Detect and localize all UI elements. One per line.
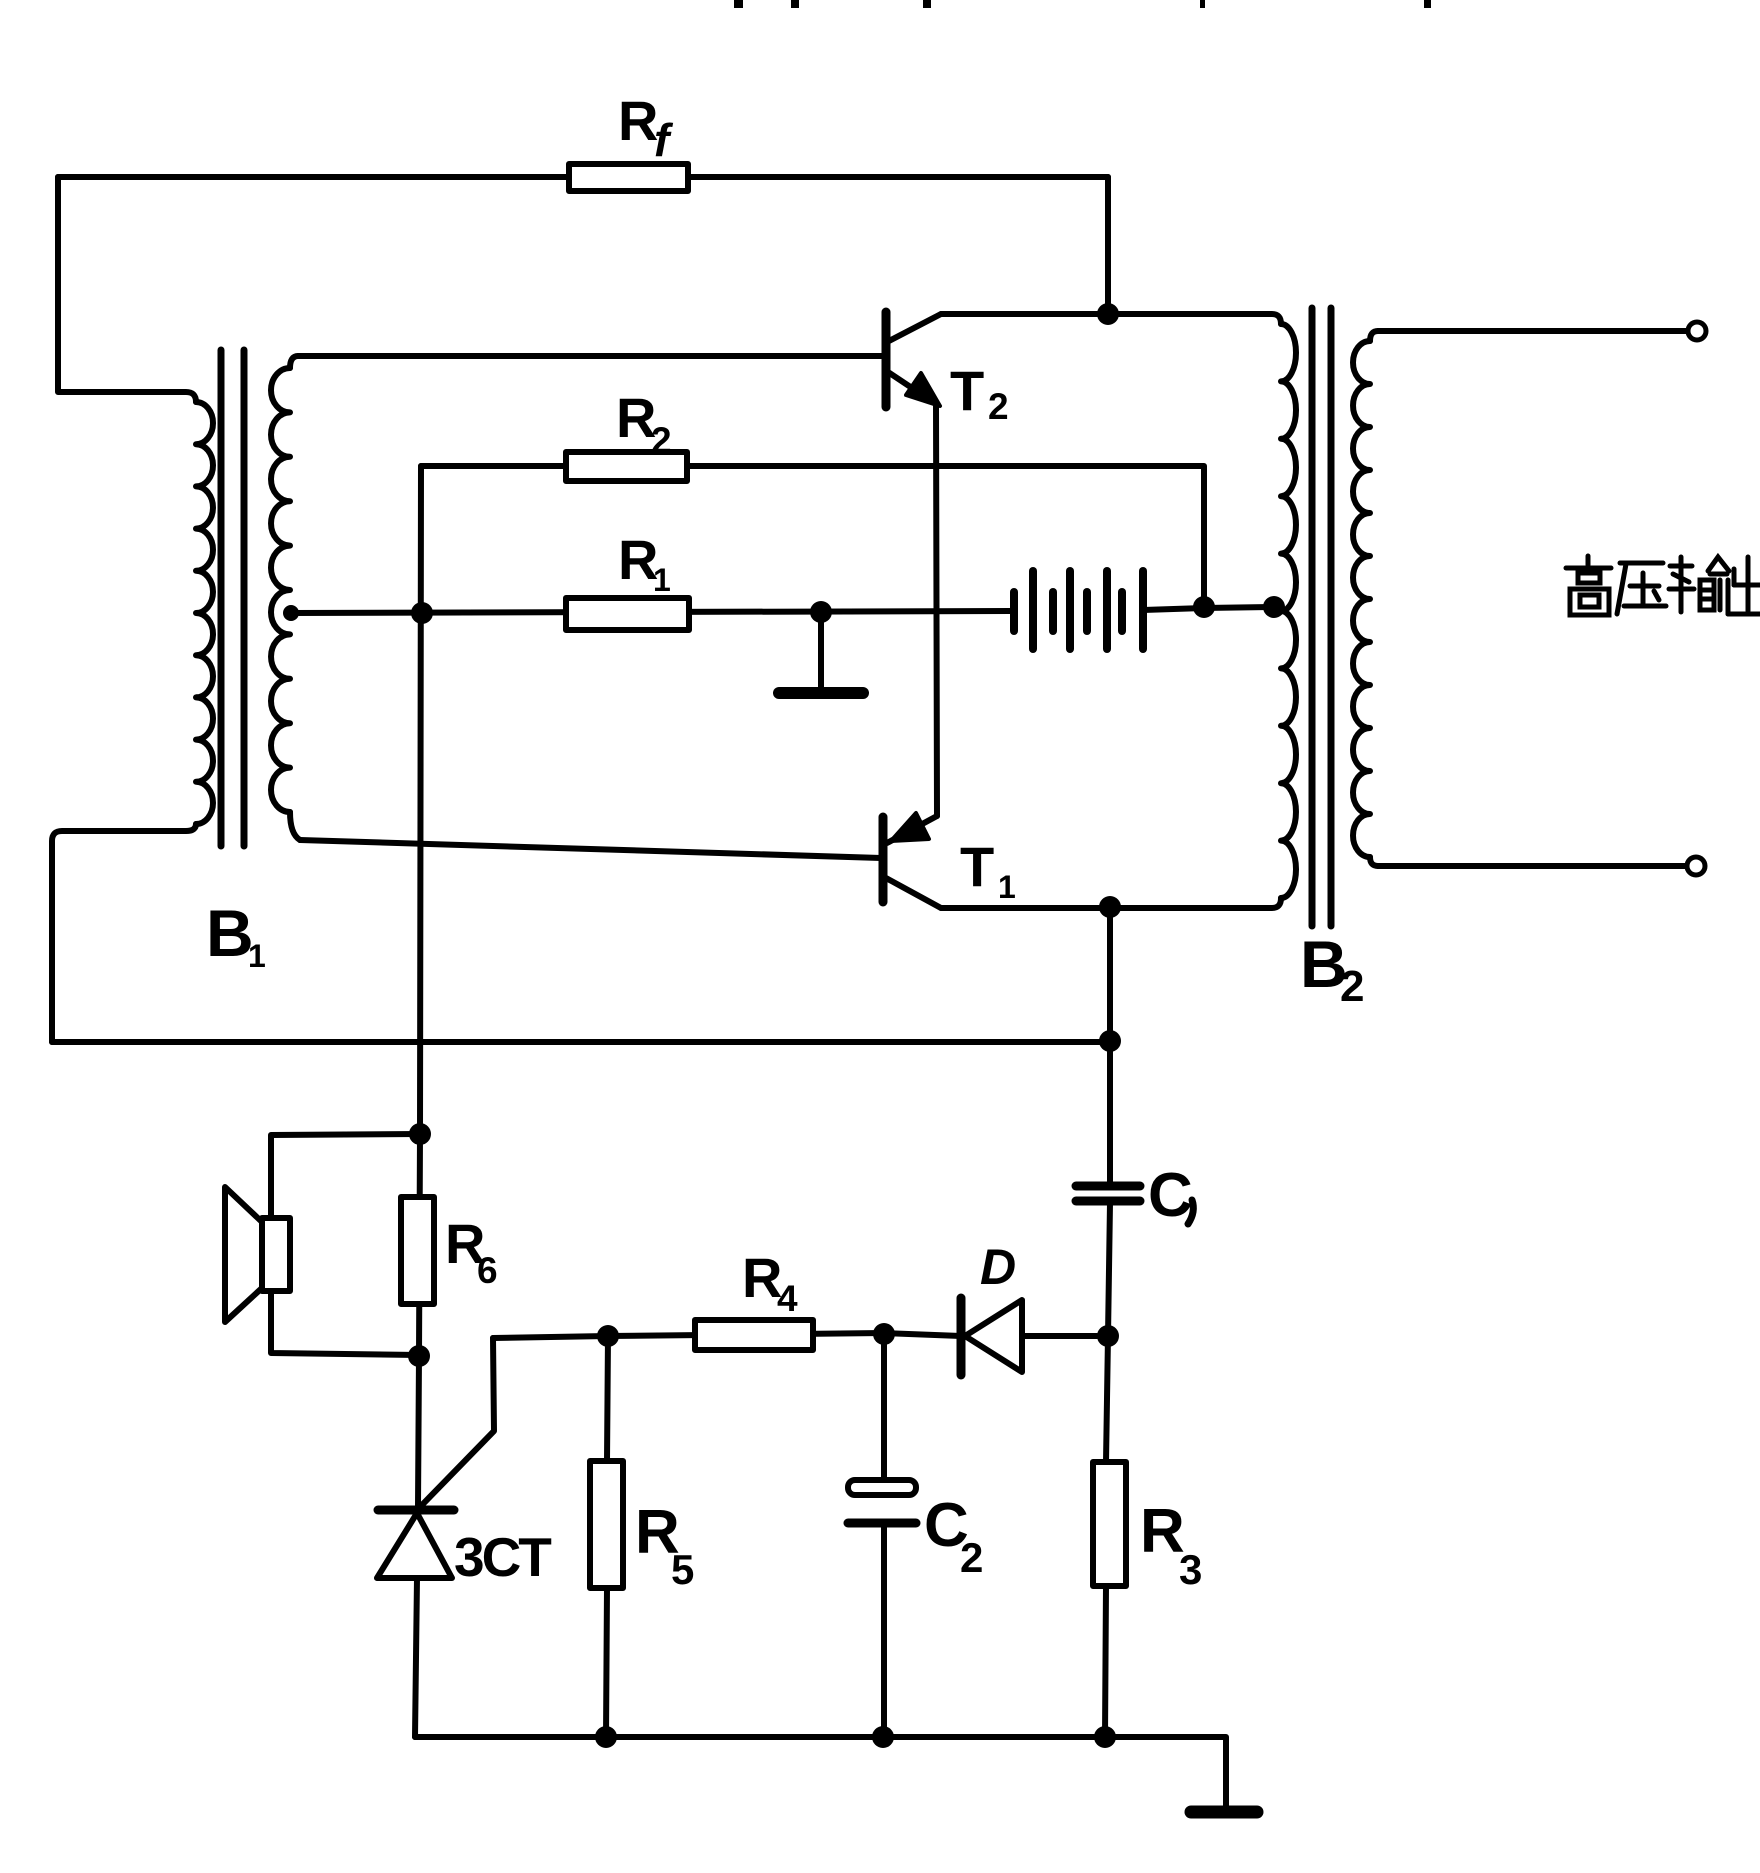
node: ground tap on R1 row [810, 601, 832, 623]
node: B2 primary centre tap [1263, 596, 1285, 618]
thyristor 3CT [377, 1510, 454, 1737]
terminal: HV output bottom [1687, 857, 1705, 875]
wire: long horizontal rail y=1042 [52, 1039, 1110, 1045]
resistor R2 [566, 452, 687, 481]
node: Rf / T2 collector junction [1097, 303, 1119, 325]
transformer B1 primary winding [196, 402, 213, 824]
svg-text:B: B [206, 896, 254, 970]
wire: speaker branch top [271, 1134, 420, 1218]
battery GB [1014, 571, 1143, 649]
wire: main left vertical (R2 corner down to SCR) [418, 466, 421, 1506]
svg-text:3CT: 3CT [454, 1526, 551, 1588]
svg-text:D: D [980, 1239, 1016, 1295]
wire: T1 collector rail to B2 primary bottom [941, 898, 1281, 908]
ground (mid circuit) [818, 612, 824, 688]
diode D [884, 1298, 1097, 1375]
transformer B1 core [218, 350, 225, 846]
wire: top feedback rail [58, 174, 1108, 180]
node: battery / R2 junction [1193, 596, 1215, 618]
ground (bottom right) [1191, 1806, 1257, 1819]
node: rail / C1 branch junction [1099, 1030, 1121, 1052]
node: R3 bottom [1094, 1726, 1116, 1748]
wire: speaker branch bottom [271, 1291, 419, 1355]
speaker [225, 1187, 290, 1322]
transformer B2 primary winding [1281, 324, 1296, 898]
node: junction R1 row / main vertical [411, 602, 433, 624]
wire: left vertical from top rail [58, 177, 196, 402]
svg-text:4: 4 [777, 1278, 798, 1319]
capacitor C2 [881, 1334, 887, 1480]
node: T1 collector junction [1099, 896, 1121, 918]
wire: T2 emitter vertical down to T1 [936, 404, 937, 816]
transformer B2 core [1309, 308, 1316, 926]
node: R5 bottom [595, 1726, 617, 1748]
wire: B2 secondary top lead [1378, 328, 1687, 334]
wire: Rf right vertical [1105, 177, 1111, 314]
scan artifacts along top edge [734, 0, 1431, 8]
svg-text:1: 1 [998, 869, 1016, 905]
node: C2 top junction [873, 1323, 895, 1345]
svg-text:T: T [960, 835, 994, 898]
svg-text:5: 5 [671, 1546, 694, 1593]
resistor R1 [566, 598, 689, 630]
transistor T2 [886, 312, 941, 407]
svg-text:2: 2 [1340, 962, 1364, 1011]
node: C2 bottom [872, 1726, 894, 1748]
svg-text:C: C [1148, 1161, 1193, 1230]
node: R5 top junction [597, 1325, 619, 1347]
resistor R5 [607, 1336, 608, 1461]
resistor R3 [1093, 1462, 1126, 1586]
node: D / C1 / R3 junction [1097, 1325, 1119, 1347]
svg-text:2: 2 [960, 1534, 983, 1581]
svg-text:2: 2 [988, 386, 1009, 427]
resistor Rf [569, 164, 688, 191]
wire: C1 bottom down to D junction [1106, 1203, 1110, 1462]
wire: R4 row [493, 1333, 884, 1338]
svg-text:6: 6 [477, 1250, 498, 1291]
svg-text:2: 2 [651, 420, 672, 461]
wire: R1 row from B1 tap to battery [291, 611, 1010, 613]
terminal: HV output top [1688, 322, 1706, 340]
thyristor 3CT gate wire [420, 1338, 494, 1507]
resistor R6 [401, 1197, 434, 1304]
wire: B1 secondary bottom to T1 base [300, 840, 881, 858]
svg-text:R: R [618, 89, 658, 152]
resistor R4 [695, 1320, 813, 1350]
wire: bottom rail [415, 1737, 1226, 1807]
svg-text:1: 1 [653, 562, 671, 598]
wire: B2 secondary bottom lead [1378, 863, 1686, 869]
wire: T2 collector rail to B2 primary top [941, 314, 1281, 324]
wire: B1 secondary top to T2 base [298, 353, 884, 359]
label: HV output (Chinese, hand drawn strokes) [1566, 556, 1760, 615]
node: B1 secondary centre tap [283, 605, 299, 621]
wire: R2 row [421, 466, 1204, 597]
svg-text:T: T [950, 359, 984, 422]
wire: B1 primary bottom to lower-left vertical [52, 824, 196, 1042]
wire: vertical T1-collector junction down to C1 [1107, 907, 1113, 1184]
wire: battery right lead to B2 centre tap [1143, 607, 1274, 610]
node: speaker bottom branch [408, 1345, 430, 1367]
transistor T1 [883, 813, 941, 908]
transformer B1 secondary winding [290, 356, 298, 368]
capacitor C1 [1076, 1182, 1140, 1191]
node: speaker top branch [409, 1123, 431, 1145]
svg-text:1: 1 [248, 938, 266, 974]
transformer B2 secondary winding [1370, 331, 1378, 341]
svg-text:3: 3 [1179, 1546, 1202, 1593]
